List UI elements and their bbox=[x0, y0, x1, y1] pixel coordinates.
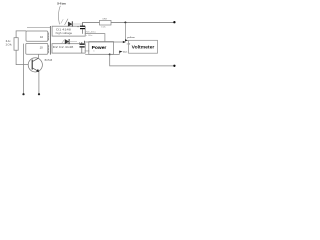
svg-text:0v: 0v bbox=[93, 50, 95, 52]
wire secondary winding top bbox=[27, 27, 50, 29]
transformer primary winding L1b bbox=[26, 43, 49, 54]
svg-text:20-40 turns: 20-40 turns bbox=[57, 2, 66, 6]
transformer primary winding L1a bbox=[26, 31, 49, 41]
svg-text:yellow: yellow bbox=[127, 37, 135, 39]
top rail positive bbox=[82, 21, 174, 23]
power block bbox=[89, 42, 114, 55]
terminal dot left bbox=[22, 93, 24, 95]
transistor Q1 BC548 bbox=[28, 58, 53, 72]
wire emitter to negative terminal bbox=[38, 72, 40, 94]
capacitor C1 bbox=[77, 23, 96, 38]
svg-text:high voltage: high voltage bbox=[56, 32, 73, 35]
terminal dot right bbox=[38, 93, 40, 95]
svg-text:1M: 1M bbox=[102, 19, 107, 21]
svg-text:+ 20v: + 20v bbox=[86, 35, 93, 37]
diode D2 bbox=[62, 39, 77, 44]
wire R1 bottom to transistor base bbox=[16, 50, 28, 64]
svg-text:BC548: BC548 bbox=[45, 60, 53, 62]
junction dot power bottom bbox=[109, 53, 111, 55]
terminal dot bottom rail end bbox=[173, 65, 175, 67]
svg-text:10: 10 bbox=[40, 35, 44, 39]
wire collector to winding L1b bbox=[37, 54, 39, 58]
wire yellow lead to voltmeter bbox=[124, 22, 126, 40]
svg-text:D1 4148: D1 4148 bbox=[56, 30, 72, 32]
svg-text:Voltmeter: Voltmeter bbox=[132, 45, 155, 50]
svg-text:black: black bbox=[123, 51, 127, 53]
wire winding L1b to negative terminal bbox=[23, 44, 25, 94]
capacitor C2 bbox=[79, 41, 85, 53]
wire red supply to voltmeter bbox=[85, 41, 123, 43]
annotation 20-40 turns with leader curve bbox=[57, 2, 66, 25]
voltmeter module bbox=[129, 40, 158, 53]
wire cap C1 bottom to power block top bbox=[85, 34, 105, 42]
svg-text:D2 C2 4148: D2 C2 4148 bbox=[53, 47, 75, 49]
resistor R2 on top rail bbox=[100, 19, 112, 29]
diode D1 bbox=[61, 19, 83, 27]
wire R1 top to winding 1 bbox=[16, 31, 26, 38]
bottom rail negative bbox=[110, 54, 175, 66]
junction dot top rail / voltmeter yellow bbox=[124, 21, 126, 23]
transformer core bbox=[49, 26, 51, 55]
svg-text:10k: 10k bbox=[101, 27, 106, 29]
resistor R1 bbox=[5, 38, 18, 51]
svg-text:10: 10 bbox=[40, 45, 44, 49]
rectifier block box D1 (high voltage) bbox=[52, 26, 85, 36]
terminal dot top rail end bbox=[173, 21, 175, 23]
red lead arrow bbox=[123, 41, 126, 43]
rectifier block box D2 bbox=[52, 44, 90, 53]
wire power block bottom bbox=[85, 53, 113, 55]
wire black lead to voltmeter bbox=[110, 52, 120, 55]
svg-text:20v-10u: 20v-10u bbox=[85, 31, 97, 33]
